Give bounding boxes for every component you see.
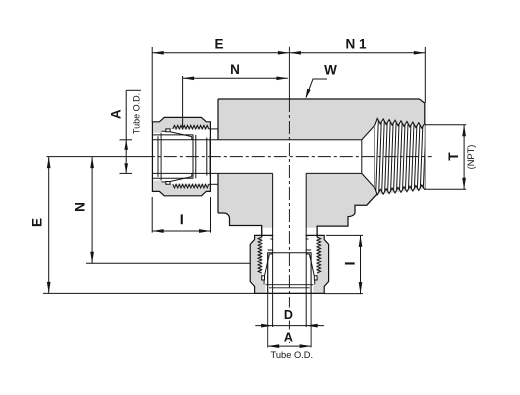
svg-text:Tube O.D.: Tube O.D. xyxy=(271,350,314,360)
svg-text:N 1: N 1 xyxy=(345,37,367,52)
svg-text:Tube O.D.: Tube O.D. xyxy=(132,93,142,134)
svg-text:A: A xyxy=(284,330,293,344)
svg-text:A: A xyxy=(109,109,124,119)
svg-text:D: D xyxy=(284,308,293,322)
svg-text:N: N xyxy=(73,202,88,212)
svg-text:W: W xyxy=(324,63,337,78)
svg-text:E: E xyxy=(214,37,223,52)
svg-text:(NPT): (NPT) xyxy=(466,145,476,170)
svg-text:N: N xyxy=(230,62,240,77)
svg-text:T: T xyxy=(446,152,461,161)
svg-text:E: E xyxy=(30,218,45,227)
